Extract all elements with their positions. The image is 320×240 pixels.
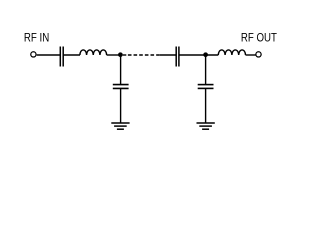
svg-text:RF OUT: RF OUT bbox=[241, 31, 278, 45]
svg-text:RF IN: RF IN bbox=[24, 31, 49, 45]
